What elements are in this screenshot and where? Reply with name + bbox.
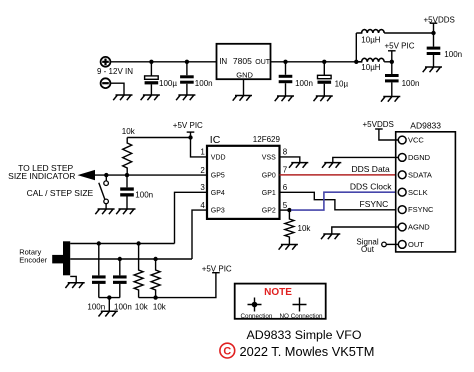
copyright symbol: [220, 343, 235, 358]
ground (input negative): [113, 95, 132, 100]
svg-text:4: 4: [200, 201, 205, 210]
ground (encoder): [65, 283, 84, 288]
pin DGND: [398, 154, 406, 162]
inductor L2 10uH: [356, 58, 384, 61]
svg-text:12F629: 12F629: [253, 135, 281, 144]
power bar +5V PIC: [388, 50, 396, 52]
svg-text:3: 3: [200, 183, 205, 192]
ground (C3): [275, 96, 294, 101]
no-connection symbol (cross): [293, 298, 307, 312]
junction arrow line / switch: [104, 173, 108, 177]
svg-text:C: C: [223, 346, 231, 358]
ground (C5): [423, 67, 442, 72]
junction rail / C4: [322, 60, 326, 64]
wire GP2 pin5 stub: [280, 209, 290, 211]
svg-text:AD9833: AD9833: [410, 120, 441, 130]
svg-text:+5V PIC: +5V PIC: [202, 265, 232, 274]
junction rail / C3: [283, 60, 287, 64]
junction input rail / C2: [185, 60, 189, 64]
svg-text:10µH: 10µH: [361, 36, 381, 45]
wire encoder common to ground: [70, 276, 76, 282]
label Signal Out: [356, 238, 378, 255]
svg-text:100n: 100n: [402, 79, 420, 88]
wire R1 top to +5V: [127, 137, 190, 139]
terminal - (9-12V input negative): [101, 78, 111, 88]
svg-text:2: 2: [200, 166, 205, 175]
power bar +5V PIC: [187, 131, 195, 133]
wire DDS Clock GP2 to SCLK (blue): [291, 192, 398, 210]
svg-text:GP4: GP4: [211, 190, 225, 197]
svg-text:2022 T. Mowles VK5TM: 2022 T. Mowles VK5TM: [240, 344, 375, 359]
wire signal out to OUT pin: [386, 243, 398, 245]
junction B bus / R4: [153, 257, 157, 261]
wire encoder B bus: [70, 258, 192, 260]
svg-text:SIZE INDICATOR: SIZE INDICATOR: [8, 171, 75, 181]
svg-text:SDATA: SDATA: [408, 170, 432, 179]
svg-text:10k: 10k: [135, 303, 149, 312]
resistor R1 10k: [123, 138, 132, 176]
svg-text:9 - 12V IN: 9 - 12V IN: [97, 67, 133, 76]
ground (C2): [176, 95, 195, 100]
terminal signal out: [382, 242, 387, 247]
junction input rail / C1: [149, 60, 153, 64]
ground (AGND): [321, 234, 340, 239]
svg-text:100n: 100n: [135, 190, 153, 199]
ground (C1): [141, 95, 160, 100]
junction arrow line / C7: [125, 173, 129, 177]
wire encoder A bus: [70, 243, 174, 245]
wire GP3 pin4 to encoder B: [192, 210, 207, 259]
ground (C6): [381, 97, 400, 102]
ground (VSS): [289, 163, 308, 168]
note box: [235, 284, 326, 319]
resistor R3 10k: [134, 244, 143, 298]
junction B bus / C9: [118, 257, 122, 261]
ground (C7): [116, 209, 135, 214]
svg-text:SCLK: SCLK: [408, 188, 428, 197]
capacitor C2 100n: [180, 62, 194, 95]
junction +5V PIC node: [390, 60, 394, 64]
junction rail / inductor split: [354, 60, 358, 64]
label Rotary Encoder: [19, 247, 47, 264]
svg-text:10µ: 10µ: [335, 79, 349, 88]
svg-text:GP2: GP2: [262, 208, 276, 215]
svg-text:DDS Data: DDS Data: [352, 164, 391, 174]
svg-text:GP5: GP5: [211, 173, 225, 180]
junction cap bus / ground: [107, 295, 111, 299]
svg-text:DDS Clock: DDS Clock: [350, 182, 392, 192]
wire L2 to +5V PIC node: [384, 61, 392, 63]
svg-text:5: 5: [283, 201, 288, 210]
power +5VDDS stem: [433, 23, 435, 33]
capacitor C3 100n: [279, 62, 293, 96]
svg-text:6: 6: [283, 183, 288, 192]
wire VSS pin8 to ground: [280, 157, 300, 163]
switch CAL/STEP: [99, 175, 109, 209]
svg-text:+5V PIC: +5V PIC: [385, 42, 415, 51]
wire 7805 GND pin: [243, 79, 245, 95]
svg-text:NO Connection: NO Connection: [280, 313, 324, 320]
wire resistor bus to +5V PIC: [139, 273, 216, 298]
IC U1 12F629 body: [207, 146, 280, 219]
svg-text:OUT: OUT: [255, 59, 270, 66]
capacitor C8 100n: [92, 244, 106, 298]
pin AGND: [398, 223, 406, 231]
svg-text:Connection: Connection: [241, 313, 273, 320]
wire +5VDDS to VCC: [379, 129, 398, 140]
resistor R2 10k pulldown: [285, 210, 294, 244]
ground (encoder caps): [99, 311, 118, 316]
wire AGND to ground: [332, 227, 399, 234]
svg-text:7: 7: [283, 166, 288, 175]
capacitor C1 100u electrolytic: [145, 62, 159, 95]
svg-text:GP0: GP0: [262, 173, 276, 180]
svg-text:GND: GND: [236, 70, 253, 79]
junction A bus / R3: [136, 241, 140, 245]
svg-text:GP3: GP3: [211, 208, 225, 215]
svg-text:7805: 7805: [233, 56, 252, 66]
svg-text:8: 8: [283, 148, 288, 157]
junction +5VDDS node: [431, 31, 435, 35]
svg-text:VCC: VCC: [408, 136, 424, 145]
power bar +5V PIC (pullups): [212, 272, 220, 274]
junction resistor bus: [153, 295, 157, 299]
svg-text:+5VDDS: +5VDDS: [424, 15, 455, 24]
wire +5V PIC stem to VDD pin 1: [191, 132, 208, 157]
svg-text:100n: 100n: [195, 79, 213, 88]
svg-text:100n: 100n: [114, 303, 132, 312]
arrow to LED step size indicator: [78, 170, 96, 180]
inductor L1 10uH: [356, 30, 384, 33]
wire capacitor ground bus: [99, 297, 120, 299]
junction VDD stem / R1: [188, 135, 192, 139]
connection symbol (cross with dot): [248, 298, 262, 312]
svg-text:NOTE: NOTE: [264, 287, 292, 298]
svg-text:Out: Out: [361, 245, 375, 254]
svg-text:GP1: GP1: [262, 190, 276, 197]
svg-text:100n: 100n: [444, 50, 462, 59]
svg-text:AGND: AGND: [408, 223, 430, 232]
svg-text:FSYNC: FSYNC: [408, 205, 434, 214]
ground (7805): [233, 96, 252, 101]
junction GP2 / R2: [287, 208, 291, 212]
power bar +5VDDS: [430, 22, 438, 24]
svg-text:CAL / STEP SIZE: CAL / STEP SIZE: [27, 188, 94, 198]
svg-text:IC: IC: [210, 134, 221, 146]
svg-text:Encoder: Encoder: [19, 256, 47, 265]
capacitor C7 100n: [120, 175, 134, 209]
pin OUT: [398, 241, 406, 249]
svg-text:VSS: VSS: [262, 155, 276, 162]
svg-text:1: 1: [200, 148, 205, 157]
power +5V PIC stem: [391, 51, 393, 62]
pin SCLK: [398, 188, 406, 196]
regulator U2 7805: [217, 44, 271, 80]
junction A bus / C8: [97, 241, 101, 245]
ground (switch): [95, 209, 114, 214]
svg-text:DGND: DGND: [408, 153, 431, 162]
svg-text:10k: 10k: [153, 303, 167, 312]
svg-text:IN: IN: [219, 57, 227, 66]
capacitor C6 100n: [385, 62, 399, 97]
capacitor C9 100n: [113, 259, 127, 298]
module U3 AD9833 body: [396, 132, 456, 252]
wire GP1 pin6 to FSYNC: [280, 192, 399, 210]
capacitor C4 10u electrolytic: [318, 62, 332, 96]
label TO LED STEP SIZE INDICATOR: [8, 163, 75, 181]
capacitor C5 100n: [427, 33, 441, 67]
svg-text:10k: 10k: [122, 127, 136, 136]
terminal + (9-12V input positive): [101, 57, 111, 67]
wire GP4 pin3 to encoder A: [175, 192, 208, 243]
svg-text:AD9833 Simple VFO: AD9833 Simple VFO: [246, 328, 361, 342]
power bar +5VDDS: [375, 128, 383, 130]
ground (C4): [314, 96, 333, 101]
wire negative to ground: [111, 83, 124, 95]
wire cap bus to ground: [108, 298, 110, 312]
svg-text:10µH: 10µH: [361, 63, 381, 72]
pin FSYNC: [398, 206, 406, 214]
svg-text:OUT: OUT: [408, 240, 424, 249]
svg-text:100n: 100n: [87, 303, 105, 312]
svg-text:FSYNC: FSYNC: [360, 199, 389, 209]
rotary encoder body: [52, 241, 70, 275]
wire DGND to ground: [333, 157, 399, 162]
svg-text:100µ: 100µ: [159, 79, 177, 88]
ground (R2): [279, 245, 298, 250]
svg-text:100n: 100n: [295, 79, 313, 88]
svg-text:VDD: VDD: [211, 155, 226, 162]
ground (DGND): [322, 163, 341, 168]
wire L1 to +5VDDS node: [384, 32, 433, 34]
wire DDS Data GP0 to SDATA (red): [280, 174, 399, 176]
wire input rail to 7805 IN: [111, 61, 217, 63]
svg-text:10k: 10k: [298, 224, 312, 233]
wire 5V rail 7805 OUT to filter: [271, 61, 357, 63]
wire split up to L1: [355, 33, 357, 62]
resistor R4 10k: [151, 259, 160, 298]
wire GP5 line to LED step indicator: [81, 174, 207, 176]
pin VCC: [398, 136, 406, 144]
svg-text:+5VDDS: +5VDDS: [363, 120, 394, 129]
svg-text:+5V PIC: +5V PIC: [173, 121, 203, 130]
pin SDATA: [398, 171, 406, 179]
